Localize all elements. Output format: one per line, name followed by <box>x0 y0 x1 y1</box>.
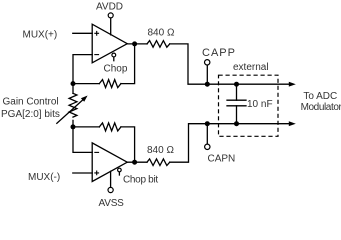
svg-text:Modulator: Modulator <box>301 102 341 113</box>
svg-text:Chop: Chop <box>104 64 128 75</box>
svg-text:external: external <box>233 62 269 73</box>
svg-text:MUX(+): MUX(+) <box>23 30 58 41</box>
svg-text:Chop bit: Chop bit <box>123 175 158 186</box>
svg-text:CAPN: CAPN <box>208 154 236 165</box>
svg-text:MUX(-): MUX(-) <box>28 172 60 183</box>
svg-text:AVDD: AVDD <box>96 2 123 13</box>
svg-text:Gain Control: Gain Control <box>3 97 59 108</box>
svg-text:840 Ω: 840 Ω <box>147 145 174 156</box>
svg-text:840 Ω: 840 Ω <box>148 28 175 39</box>
svg-text:AVSS: AVSS <box>99 198 125 209</box>
svg-text:To ADC: To ADC <box>303 91 337 102</box>
svg-text:10 nF: 10 nF <box>247 99 273 110</box>
svg-text:PGA[2:0] bits: PGA[2:0] bits <box>1 109 60 120</box>
svg-text:CAPP: CAPP <box>202 47 236 59</box>
